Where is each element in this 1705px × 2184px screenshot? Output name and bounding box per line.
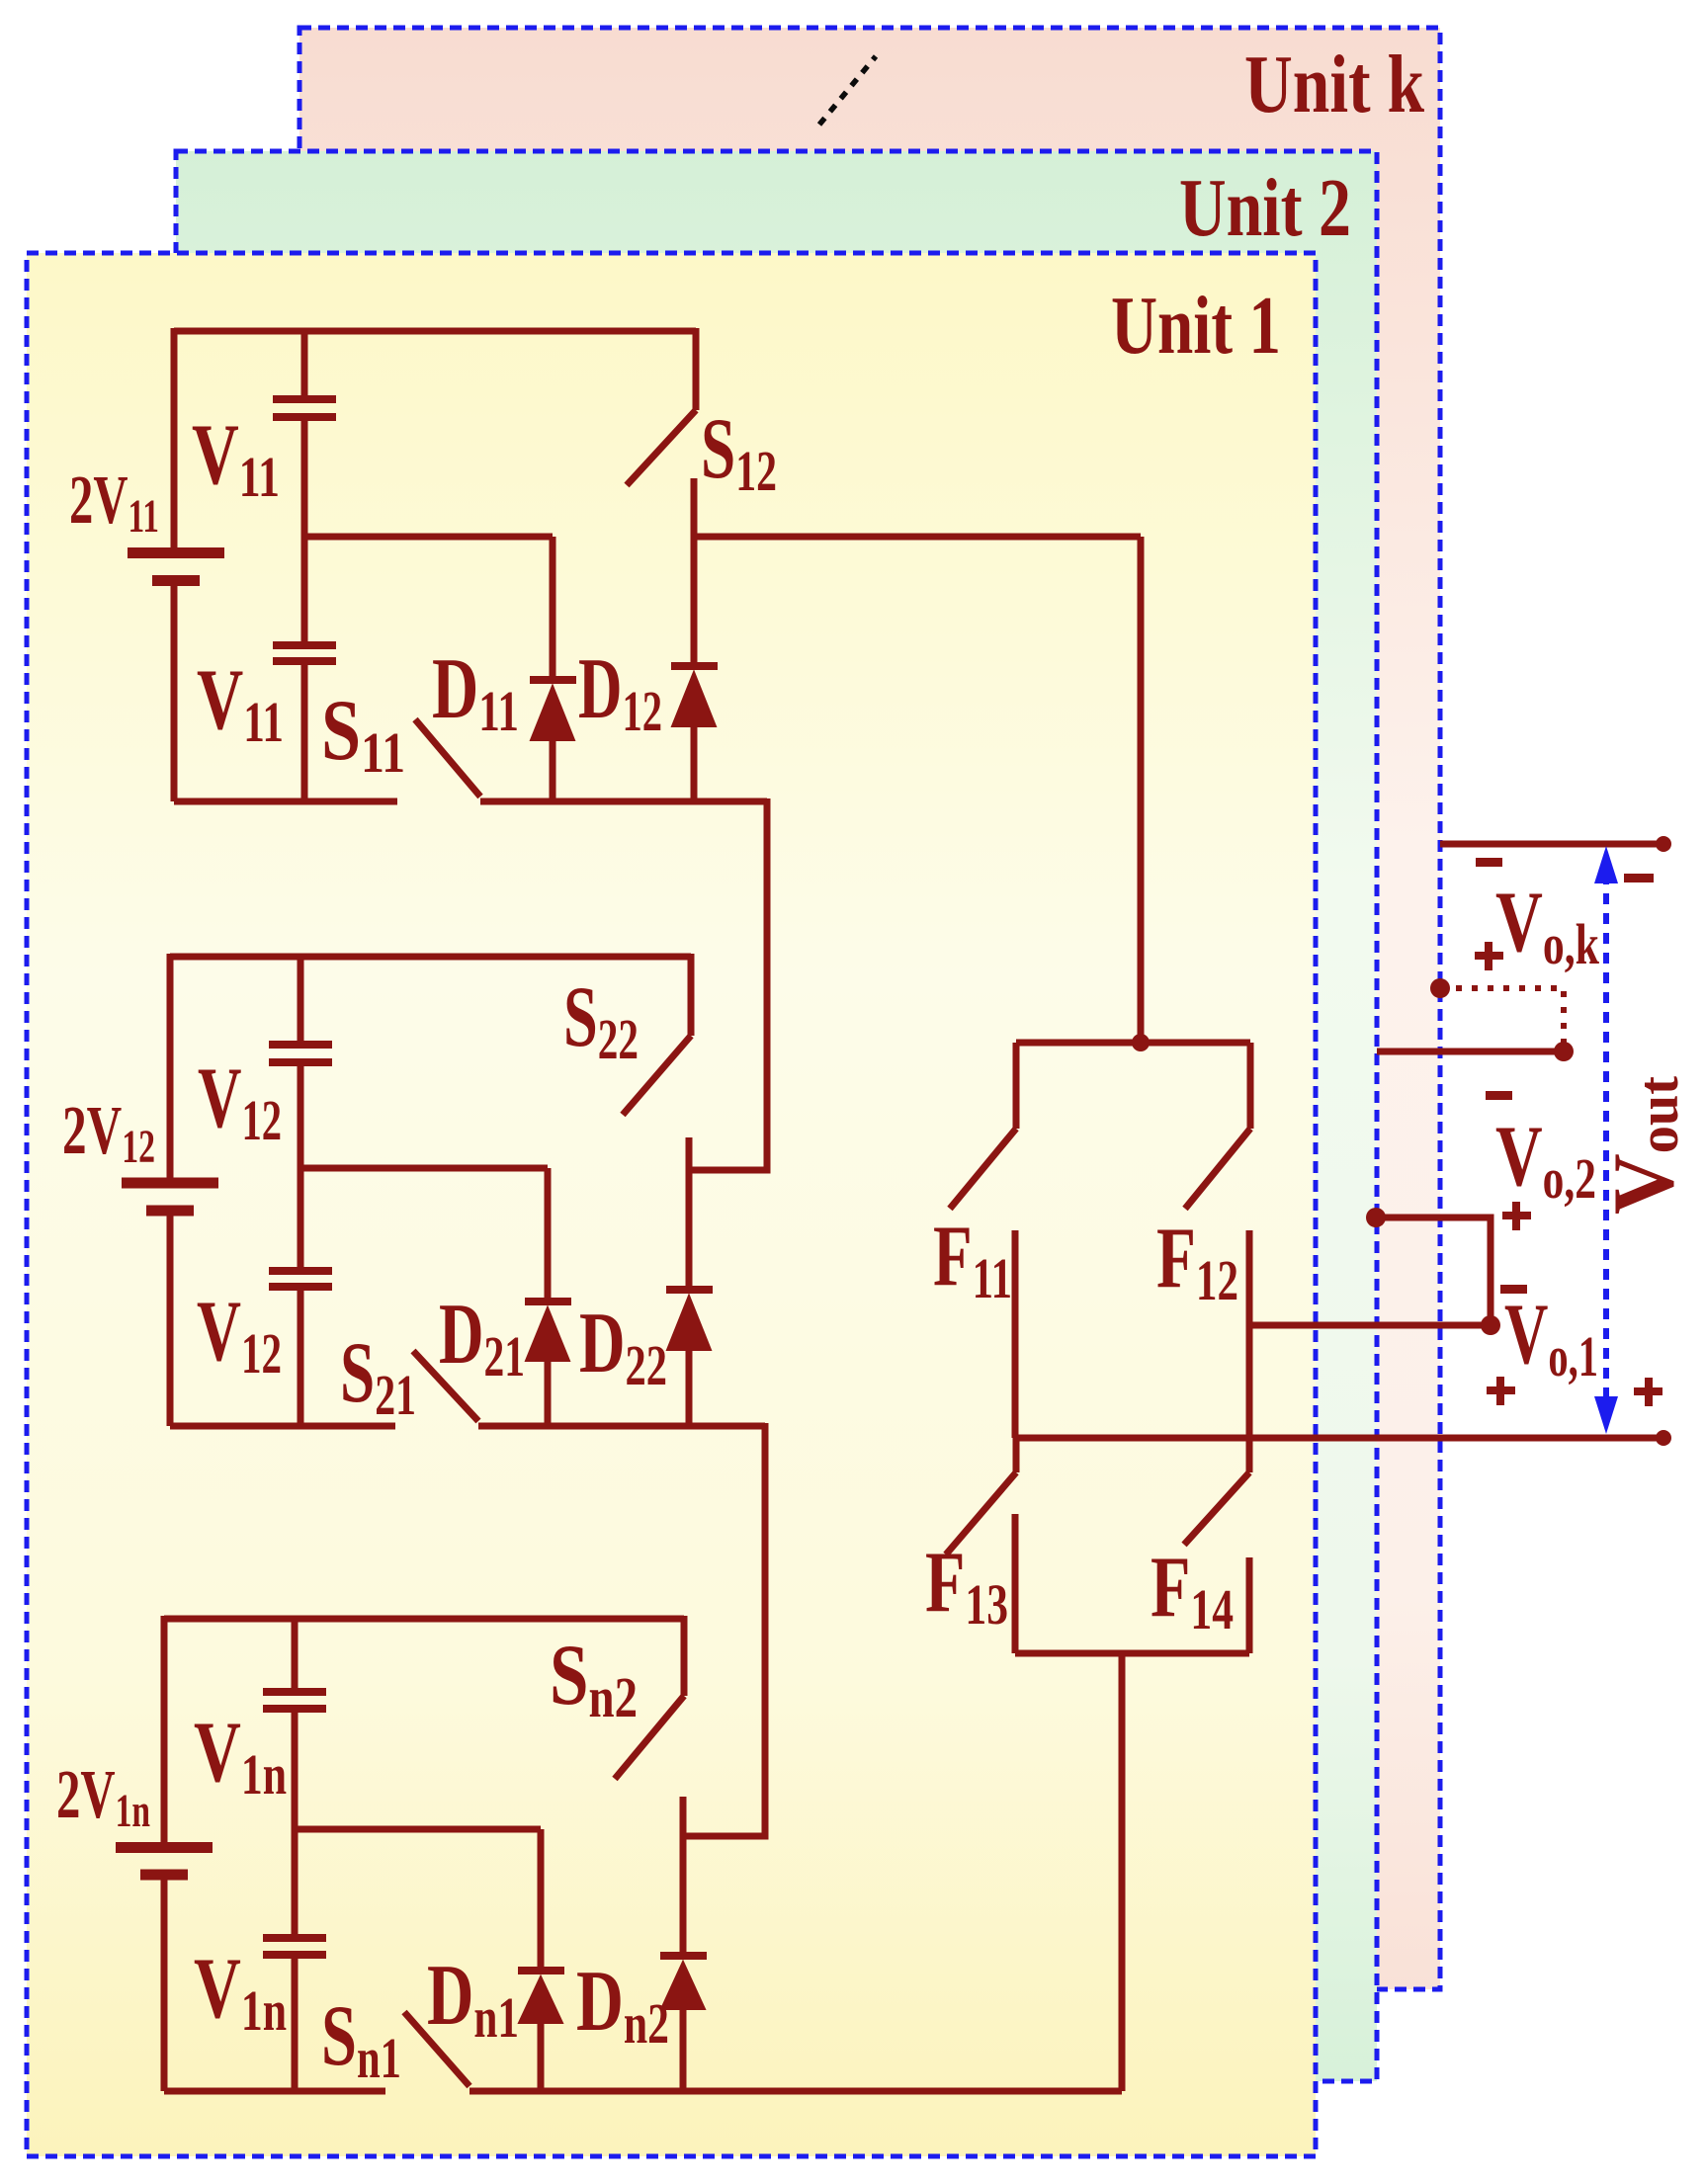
diode Dn2 xyxy=(660,1797,707,2091)
capacitor V12 upper xyxy=(269,954,332,1168)
label minus Vok top xyxy=(1476,858,1502,867)
switch F13 xyxy=(946,1438,1016,1653)
svg-text:Unit 1: Unit 1 xyxy=(1111,280,1281,372)
wire block2 top rail xyxy=(170,954,691,961)
wire block3 bottom rail left xyxy=(164,2088,385,2095)
battery 2V12 xyxy=(122,954,218,1426)
dot bracket bottom xyxy=(1481,1315,1500,1335)
svg-text:Vo,k: Vo,k xyxy=(1495,875,1600,976)
wire block1 top rail xyxy=(174,328,696,335)
switch F14 xyxy=(1184,1438,1249,1653)
label minus right of arrow top xyxy=(1624,874,1654,882)
diode D21 xyxy=(525,1168,571,1426)
wire S12 output rail xyxy=(694,534,1141,541)
svg-text:Unit 2: Unit 2 xyxy=(1179,162,1351,254)
wire F bottom rail xyxy=(1015,1650,1249,1657)
switch Sn1 xyxy=(404,2012,1122,2091)
capacitor V1n upper xyxy=(263,1616,326,1829)
switch S11 xyxy=(415,719,767,801)
wire block3 top rail xyxy=(164,1616,684,1623)
dot Vo2 right xyxy=(1554,1042,1574,1061)
wire Vok top output rail xyxy=(1440,841,1670,848)
switch S22 xyxy=(623,954,691,1115)
svg-text:Vout: Vout xyxy=(1596,1075,1692,1215)
label minus Vo1 xyxy=(1500,1285,1527,1294)
wire block2 to Sn2 link xyxy=(683,1423,765,1836)
label plus Vok xyxy=(1475,942,1503,970)
terminal dot top xyxy=(1656,836,1671,852)
capacitor V11 lower xyxy=(273,537,336,801)
svg-text:Vo,2: Vo,2 xyxy=(1495,1109,1596,1211)
capacitor V11 upper xyxy=(273,328,336,537)
wire F top rail xyxy=(1016,1040,1250,1047)
switch Sn2 xyxy=(615,1616,684,1779)
label plus Vo1 left xyxy=(1487,1377,1515,1405)
wire Vo1 to Vo2 bracket xyxy=(1249,1218,1491,1325)
switch S21 xyxy=(413,1351,765,1426)
terminal dot bottom xyxy=(1656,1430,1671,1446)
dot dotted link start xyxy=(1430,978,1450,998)
unit 1 dashed box xyxy=(27,253,1316,2156)
svg-text:Unit k: Unit k xyxy=(1244,39,1424,130)
capacitor V12 lower xyxy=(269,1168,332,1426)
continuation mark xyxy=(819,56,876,125)
battery 2V1n xyxy=(116,1616,213,2091)
wire block2 mid rail xyxy=(300,1165,548,1172)
diode Dn1 xyxy=(518,1829,564,2091)
diode D12 xyxy=(671,478,718,801)
dot bracket top xyxy=(1366,1208,1386,1227)
dotted link unit2 to unit k xyxy=(1440,988,1564,1044)
wire block1 to S22 link xyxy=(692,798,767,1170)
wire F bridge input xyxy=(1138,537,1145,1043)
label plus Vo1 right xyxy=(1634,1378,1662,1406)
wire F mid rail output xyxy=(1015,1435,1670,1442)
diode D22 xyxy=(666,1137,713,1426)
label plus Vo2 xyxy=(1502,1202,1531,1230)
capacitor V1n lower xyxy=(263,1829,326,2091)
svg-text:Vo,1: Vo,1 xyxy=(1504,1287,1598,1388)
junction dot F input xyxy=(1132,1034,1150,1051)
wire block2 bottom rail left xyxy=(170,1423,395,1430)
battery 2V11 xyxy=(128,328,224,801)
wire block1 mid rail xyxy=(304,534,553,541)
switch F12 xyxy=(1185,1043,1250,1438)
wire block3 mid rail xyxy=(295,1826,541,1833)
unit k dashed box xyxy=(299,28,1440,1989)
switch S12 xyxy=(627,328,696,485)
wire Vo2 output rail xyxy=(1377,1049,1564,1055)
unit 2 dashed box xyxy=(176,151,1377,2081)
switch F11 xyxy=(950,1043,1016,1438)
diode D11 xyxy=(530,537,576,801)
label minus Vo2 xyxy=(1486,1091,1512,1100)
wire block1 bottom rail left xyxy=(174,798,397,805)
wire F bottom to block3 rail xyxy=(1119,1653,1126,2091)
blue Vout arrow xyxy=(1594,846,1618,1434)
